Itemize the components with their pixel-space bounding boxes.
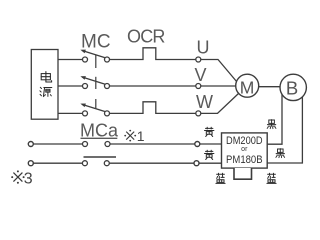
note mark ※3 <box>11 170 24 183</box>
contact MCa row A <box>83 142 111 147</box>
controller bottom tab <box>234 168 252 179</box>
terminal W <box>196 111 201 116</box>
label 黑 black (upper) <box>267 120 276 129</box>
label 蓝 blue (right) <box>267 173 276 183</box>
svg-text:MCa: MCa <box>80 121 119 141</box>
MC mechanical linkage (dashed) <box>95 55 97 109</box>
label 黑 black (lower) <box>276 149 285 158</box>
wire L2 from box to MC contact <box>58 85 83 87</box>
black wire B to controller (inner) <box>267 90 282 144</box>
label 黄 yellow (row A) <box>205 127 214 136</box>
wire L1 from box to MC contact <box>58 59 83 61</box>
brake B <box>280 74 306 100</box>
wire V terminal to motor <box>201 85 237 87</box>
wire W terminal to motor <box>201 94 239 114</box>
label 黄 yellow (row B) <box>205 150 214 159</box>
controller box DM200D / PM180B <box>222 133 268 168</box>
svg-text:M: M <box>240 78 255 98</box>
contactor MC pole 1 <box>80 50 109 62</box>
terminal U <box>196 57 201 62</box>
contactor MC pole 2 <box>80 76 109 88</box>
label 电 (power) glyph <box>41 72 51 82</box>
label 源 (source) glyph <box>40 87 52 96</box>
note mark ※1 <box>124 130 136 142</box>
svg-text:3: 3 <box>24 170 33 187</box>
svg-text:MC: MC <box>81 31 111 52</box>
aux feed wire row A <box>33 143 82 145</box>
svg-text:1: 1 <box>137 128 145 144</box>
label 蓝 blue (left) <box>216 173 225 183</box>
source terminal row A <box>28 142 33 147</box>
power source box 电源 <box>31 50 58 120</box>
svg-text:V: V <box>195 65 207 85</box>
connector terminal row B <box>194 161 199 166</box>
wire U phase with OCR heater element <box>110 48 196 60</box>
contact MCa row B with bridge bar <box>82 157 116 166</box>
wire L3 from box to MC contact <box>58 112 83 114</box>
motor M <box>236 74 259 97</box>
svg-text:OCR: OCR <box>127 27 165 47</box>
connector terminal row A <box>195 142 200 147</box>
MCa underline <box>81 137 118 139</box>
terminal V <box>196 84 201 89</box>
svg-text:U: U <box>197 38 210 58</box>
black wire B to controller (outer) <box>267 93 302 163</box>
svg-text:or: or <box>241 146 248 153</box>
wire M to B <box>258 86 281 88</box>
contactor MC pole 3 <box>80 104 109 116</box>
wire U terminal to motor <box>201 60 237 83</box>
svg-text:B: B <box>286 78 298 99</box>
aux feed wire row B <box>33 162 82 164</box>
svg-text:W: W <box>196 92 213 112</box>
wire V phase <box>110 85 196 87</box>
svg-text:PM180B: PM180B <box>226 154 263 166</box>
source terminal row B <box>28 161 33 166</box>
wire W phase with OCR heater element <box>110 102 196 114</box>
